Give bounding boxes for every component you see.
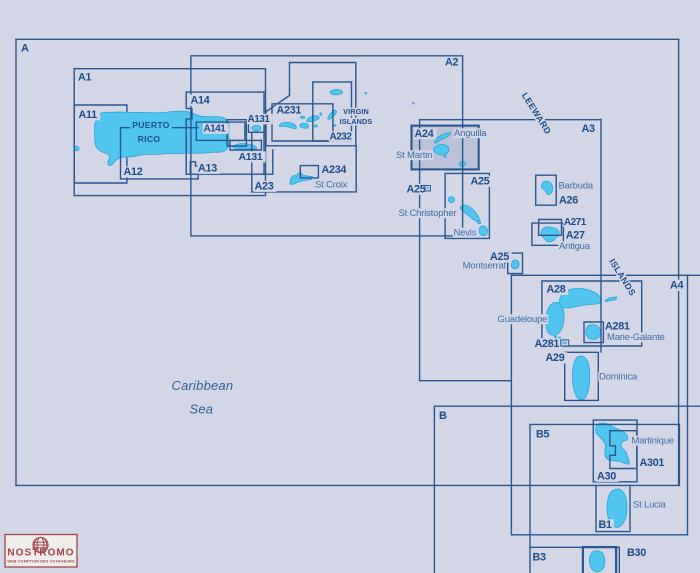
- svg-text:Martinique: Martinique: [632, 436, 674, 447]
- svg-text:A232: A232: [330, 132, 353, 143]
- svg-text:A30: A30: [597, 471, 616, 483]
- svg-text:A27: A27: [566, 230, 585, 242]
- svg-text:A2: A2: [445, 57, 458, 69]
- svg-text:A28: A28: [547, 284, 566, 296]
- svg-text:Caribbean: Caribbean: [172, 378, 234, 393]
- svg-text:PUERTO: PUERTO: [132, 120, 169, 130]
- svg-text:B3: B3: [533, 552, 546, 564]
- svg-text:St Croix: St Croix: [315, 180, 348, 191]
- svg-text:A271: A271: [564, 217, 587, 228]
- svg-text:A141: A141: [204, 124, 227, 135]
- svg-text:A131: A131: [248, 114, 271, 125]
- svg-text:Guadeloupe: Guadeloupe: [498, 314, 548, 325]
- svg-text:A1: A1: [78, 72, 91, 84]
- svg-text:A231: A231: [277, 105, 302, 117]
- svg-text:St Christopher: St Christopher: [399, 208, 457, 219]
- svg-text:Anguilla: Anguilla: [454, 128, 487, 139]
- svg-text:B1: B1: [599, 519, 612, 531]
- svg-text:A23: A23: [255, 181, 274, 193]
- svg-text:NOSTROMO: NOSTROMO: [7, 548, 74, 559]
- svg-text:St Martin: St Martin: [396, 150, 432, 161]
- svg-text:Dominica: Dominica: [599, 372, 638, 383]
- svg-text:A25: A25: [407, 184, 426, 196]
- svg-text:RICO: RICO: [138, 134, 161, 144]
- svg-text:A4: A4: [670, 280, 683, 292]
- svg-text:A11: A11: [79, 109, 98, 121]
- svg-text:A26: A26: [559, 195, 578, 207]
- svg-text:Antigua: Antigua: [559, 241, 591, 252]
- svg-text:A131: A131: [239, 151, 263, 163]
- svg-text:B: B: [439, 410, 447, 422]
- svg-text:Nevis: Nevis: [454, 228, 477, 239]
- svg-text:B5: B5: [536, 429, 549, 441]
- svg-text:A14: A14: [191, 95, 210, 107]
- svg-text:A12: A12: [124, 166, 143, 178]
- svg-text:Montserrat: Montserrat: [463, 261, 507, 272]
- svg-text:Barbuda: Barbuda: [559, 181, 594, 192]
- svg-text:A234: A234: [322, 164, 347, 176]
- svg-text:A281: A281: [535, 338, 560, 350]
- svg-text:B30: B30: [627, 547, 646, 559]
- svg-text:St Lucia: St Lucia: [633, 500, 667, 511]
- svg-text:WEB COMPTOIR DES VOYAGEURS: WEB COMPTOIR DES VOYAGEURS: [7, 560, 75, 564]
- svg-text:A29: A29: [546, 352, 565, 364]
- svg-text:ISLANDS: ISLANDS: [340, 117, 373, 126]
- svg-text:VIRGIN: VIRGIN: [343, 107, 369, 116]
- svg-text:A13: A13: [198, 163, 217, 175]
- svg-text:A25: A25: [471, 176, 490, 188]
- svg-text:A3: A3: [582, 123, 595, 135]
- svg-text:A281: A281: [605, 321, 630, 333]
- svg-text:A24: A24: [415, 128, 434, 140]
- svg-text:A301: A301: [640, 457, 665, 469]
- svg-text:Sea: Sea: [190, 402, 214, 417]
- svg-text:Marie-Galante: Marie-Galante: [607, 332, 665, 343]
- svg-text:A: A: [21, 43, 29, 55]
